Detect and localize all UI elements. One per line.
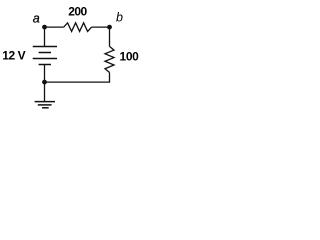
battery V1 top lead	[44, 27, 46, 46]
svg-text:100: 100	[120, 49, 140, 63]
resistor R2	[105, 46, 114, 72]
battery V1 plate short 1	[39, 52, 51, 54]
battery V1 bottom lead	[44, 65, 46, 83]
node a	[42, 25, 47, 30]
svg-text:a: a	[33, 12, 40, 26]
battery V1 plate long 1	[33, 46, 57, 48]
svg-text:200: 200	[68, 5, 87, 19]
ground bar 3	[42, 107, 49, 109]
svg-text:b: b	[116, 11, 123, 25]
svg-text:12 V: 12 V	[2, 48, 25, 62]
wire	[45, 72, 110, 82]
battery V1 plate short 2	[39, 64, 51, 66]
ground lead	[44, 82, 46, 102]
ground bar 2	[38, 104, 52, 106]
ground bar 1	[35, 101, 55, 103]
wire	[109, 27, 111, 46]
battery V1 plate long 2	[33, 58, 57, 60]
wire	[45, 26, 64, 28]
resistor R1	[64, 23, 92, 32]
junction	[42, 80, 47, 85]
node b	[107, 25, 112, 30]
wire	[92, 26, 110, 28]
